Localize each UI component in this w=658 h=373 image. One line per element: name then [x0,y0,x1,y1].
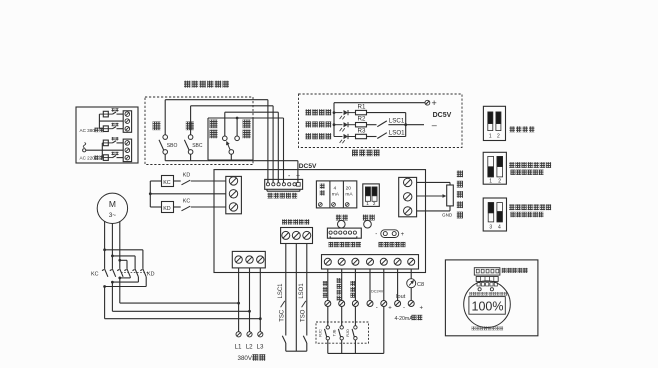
relay riser 1 [327,340,329,354]
pot screw 2 [332,203,336,207]
wire AC380 bus [99,114,123,129]
display connector [327,228,361,238]
svg-text:+: + [388,305,392,311]
junction V [111,255,114,258]
wire SBO up [165,100,268,183]
label DIP1 [510,126,535,132]
label close indication [306,121,332,127]
svg-text:-: - [403,305,405,311]
label position indicators [469,292,507,296]
label DIP2 line1 [509,162,551,168]
bottom terminal row [322,255,419,269]
limit screw 2 [292,231,300,239]
label 380V power [238,354,266,362]
wire remote open [354,269,356,301]
wire remote close [327,269,329,301]
svg-text:KD: KD [183,173,191,179]
label tiaoling [320,184,325,196]
wire to meter [410,269,412,279]
label remote close vert [323,281,328,298]
contact after F2 [113,127,124,129]
right bus [405,113,407,137]
limit bottom bus [286,350,307,352]
svg-text:R1: R1 [358,103,366,110]
svg-text:M: M [109,199,116,209]
svg-text:–: – [432,120,437,130]
svg-text:20: 20 [346,186,352,192]
svg-text:R2: R2 [358,116,366,123]
label valve pot vertical [457,171,463,219]
svg-text:+: + [432,98,437,108]
switch TSO [303,336,307,351]
left block screw 2 [229,190,237,198]
svg-text:TSC: TSC [279,309,285,322]
svg-text:L1: L1 [235,344,242,351]
lower jumper KD1 [120,277,131,278]
junction mid row [149,192,152,195]
wire minus rail [406,124,424,126]
svg-text:4: 4 [498,224,501,230]
plus terminal [425,100,430,105]
svg-text:1: 1 [489,178,492,184]
bottom row screw 5 [380,258,387,265]
svg-text:LSO1: LSO1 [299,283,305,299]
control connector [265,179,303,191]
junction low W [118,277,121,280]
pot screw 1 [318,203,322,207]
motor wire U [104,221,106,269]
display unit box [445,260,538,336]
bottom row screw 4 [367,258,374,265]
resistor R3 [356,134,367,138]
relay contact RJC [325,326,330,340]
wire R1 to bus [367,112,406,114]
pot screw 3 [345,203,349,207]
svg-text:+: + [420,305,424,311]
wire remote keep [341,269,343,301]
terminal screw AC380-2 [125,119,130,124]
label slash TSO [302,301,306,307]
KC contact blade 3 [117,269,123,277]
label 4mA [332,186,340,198]
label local [243,120,251,139]
fuse F2 [99,126,112,132]
svg-text:R3: R3 [358,127,366,134]
LED quexiang [338,220,346,228]
label display socket [502,268,528,273]
junction L2 [248,310,251,313]
terminal L2 [247,332,252,337]
wire limit 2 [295,244,297,352]
bl screw L3 [257,256,264,263]
terminal screw AC380-3 [125,126,130,131]
label K2 [112,123,119,126]
svg-text:Iout: Iout [396,294,406,300]
jumper U to KD3 [105,250,143,269]
left coil bus [149,181,151,207]
wire AC220 mid [102,149,123,151]
relay riser 2 [341,340,343,354]
label DIP3 line1 [509,204,551,210]
LED D3 [334,134,356,143]
phase column V [112,282,249,311]
svg-text:RJO: RJO [346,329,350,337]
label 4-20mA output [395,315,423,322]
label K4 [112,152,119,155]
contact after F1 [113,112,124,114]
pushbutton SBO [159,135,168,154]
fuse F1 [99,111,112,117]
label slash TSC [281,301,285,307]
svg-text:2: 2 [497,133,500,139]
wire into relay 1 [327,307,329,326]
power DIP switch [363,184,380,207]
relay contact RJO [352,326,357,340]
terminal remote open [352,301,358,307]
resistor R2 [356,123,367,127]
wire into relay 3 [354,307,356,326]
title local control buttons [184,81,229,88]
left terminal block [226,176,242,213]
display 100% [469,297,505,315]
wire KD row [150,206,180,208]
motor M [97,193,127,223]
wire remote up [225,112,278,182]
svg-text:mA: mA [332,192,340,198]
wire meter to terminal [410,288,412,301]
svg-text:LSC1: LSC1 [389,117,405,124]
terminal Iout plus [408,301,414,307]
motor wire W [119,221,121,269]
display plug [476,277,498,282]
svg-text:AC 380: AC 380 [80,128,96,133]
limit terminal block [281,228,313,244]
display socket [474,268,500,275]
label note [472,326,504,330]
dashed relay box [316,322,369,343]
wire SBC up [191,106,274,183]
KC contact blade 1 [102,269,108,277]
wire pot wiper [417,195,446,197]
DIP switch 1 [483,106,505,140]
label DIP3 line2 [511,212,544,217]
junction local [236,117,239,120]
potentiometer valve position [447,185,454,206]
lower jumper KD3 [105,277,147,287]
svg-text:DC5V: DC5V [433,112,452,119]
label K3 [112,137,119,140]
mechanical link dashed [121,272,149,274]
LED open [478,288,481,291]
terminal DC24V minus [367,301,373,307]
svg-text:DC5V: DC5V [299,163,317,170]
bottom row screw 7 [408,258,415,265]
contact KD in KC row [182,180,226,185]
terminal screw AC220-1 [125,141,130,146]
label close [186,122,194,131]
svg-text:-: - [375,232,377,238]
svg-text:SBO: SBO [167,143,178,149]
svg-text:KD: KD [147,271,155,277]
terminal screw AC380-1 [125,112,130,117]
KD contact blade 3 [140,269,146,277]
terminal L3 [258,332,263,337]
wire limit 3 [306,244,308,336]
bottom row screw 1 [324,258,331,265]
relay riser 3 [354,340,356,354]
bottom row screw 3 [352,258,359,265]
label control connector [268,193,298,199]
svg-text:3~: 3~ [109,212,117,219]
label remote keep vert [337,278,342,301]
jumper W to KD1 [120,260,127,269]
label display connector [329,242,361,247]
dashed box local control [145,97,253,165]
svg-text:KD: KD [163,206,171,212]
svg-text:+: + [401,232,405,238]
coil KD [162,202,174,213]
dashed box field indication [299,94,463,148]
motor wire V [111,224,113,269]
svg-text:4-20mA: 4-20mA [395,316,414,322]
switch LSC1 [367,121,406,127]
right block screw 1 [404,178,412,186]
svg-text:AC 220: AC 220 [80,156,96,161]
svg-text:KC: KC [183,199,191,205]
svg-text:+: + [296,173,300,180]
LED D2 [334,122,356,131]
wire plus rail [334,103,425,137]
right block screw 3 [404,207,412,215]
wire L3 [259,268,261,332]
svg-text:L2: L2 [246,344,253,351]
label AC 220 input [80,155,104,160]
selector box [208,118,253,160]
KD contact blade 1 [124,269,130,277]
label open indication [306,133,332,139]
terminal L1 [236,332,241,337]
junction U [103,248,106,251]
limit connector label [282,219,309,224]
terminal Iout minus [395,301,401,307]
svg-text:TSO: TSO [300,309,306,322]
selector switch [223,136,240,154]
wire L2 [249,268,251,332]
left block screw 3 [229,203,237,211]
contact after F3 [113,141,124,143]
svg-text:mA: mA [345,192,353,198]
label 20mA [345,186,353,198]
left block screw 1 [229,177,237,185]
label field indication [352,150,380,156]
terminal remote close [325,301,331,307]
svg-text:100%: 100% [472,300,504,314]
meter C8 [407,279,416,288]
svg-text:4: 4 [334,186,337,192]
svg-text:3: 3 [489,224,492,230]
label remote open vert [350,281,355,298]
fuse F3 [102,140,112,146]
svg-text:GND: GND [442,213,453,218]
label DIP2 line2 [511,170,544,175]
DIP switch 3 [483,198,506,231]
wire common bus [165,154,298,183]
junction L1 [237,302,240,305]
AC source squiggle [83,143,86,152]
LED D1 [334,110,356,119]
svg-text:LSC1: LSC1 [278,283,284,299]
wire L1 [238,268,240,332]
wire source to fuses [86,143,103,158]
wire Iout minus [397,269,399,301]
pushbutton SBC [184,135,193,154]
display face circle [464,281,511,328]
phase column W [120,278,239,303]
zero test point [375,230,404,238]
svg-text:2: 2 [373,201,376,206]
junction W [118,259,121,262]
terminal screw AC220-3 [125,155,130,160]
label quexiang [336,215,348,221]
jumper V to KD2 [112,256,135,269]
wire pot top [417,182,450,185]
wire pot bottom [417,206,450,211]
junction low V [111,281,114,284]
junction R2 row [333,123,336,126]
bl screw L2 [246,256,253,263]
svg-text:RJC: RJC [319,329,323,337]
bottom row screw 6 [394,258,401,265]
lower jumper KD2 [112,277,138,282]
svg-text:KC: KC [91,271,99,277]
wire local up [208,118,284,183]
display pin row [477,283,497,286]
svg-text:LSO1: LSO1 [389,130,405,137]
wire middle row [150,193,226,195]
coil KC [162,176,174,187]
KD contact blade 2 [133,269,139,277]
relay bottom bus [328,307,384,354]
right block screw 2 [404,193,412,201]
wire KC row [150,180,180,182]
bl screw L1 [235,256,242,263]
terminal block AC380 [123,111,131,133]
svg-text:KC: KC [163,180,171,186]
label remote [210,120,218,139]
LED close [490,288,493,291]
contact after F4 [113,156,124,158]
label AC 380 input [80,128,104,133]
wire limit 1 [285,244,287,336]
KC contact blade 2 [110,269,116,277]
bottom row screw 2 [338,258,345,265]
limit screw 1 [282,231,290,239]
right terminal block [399,177,417,216]
DIP switch 2 [483,152,506,184]
wire into relay 2 [341,307,343,326]
svg-text:1: 1 [489,133,492,139]
AC input option box [76,107,138,163]
zero-adjust box [316,181,356,208]
LED power [364,220,372,228]
terminal remote keep [339,301,345,307]
svg-text:L3: L3 [257,344,264,351]
svg-text:380V: 380V [238,355,253,362]
resistor R1 [356,110,367,114]
label zero test point [379,242,406,247]
relay contact TJB [338,326,343,340]
main board outline [214,170,426,273]
svg-text:TJB: TJB [333,329,337,336]
terminal screw AC220-2 [125,148,130,153]
switch TSC [282,336,286,351]
phase column U [105,287,261,319]
label open [153,122,161,131]
svg-text:DC24V: DC24V [371,290,384,294]
contact KC in KD row [182,206,226,211]
svg-text:2: 2 [498,178,501,184]
limit screw 3 [303,231,311,239]
bottom-left terminal block [232,251,265,268]
junction L3 [259,317,262,320]
svg-text:-: - [376,305,378,311]
label power [363,215,375,221]
fuse F4 [102,155,112,161]
junction low U [103,285,106,288]
terminal DC24V plus [381,301,387,307]
switch LSO1 [367,133,406,139]
wire DC24V minus [369,269,371,301]
svg-text:C8: C8 [417,282,424,288]
terminal block AC220 [123,139,131,162]
svg-text:SBC: SBC [192,143,203,149]
junction right bus [404,123,407,126]
label K1 [112,108,119,111]
label power indication [306,109,332,115]
junction R1 row [333,111,336,114]
wire DC24V plus [383,269,385,301]
svg-text:1: 1 [366,201,369,206]
